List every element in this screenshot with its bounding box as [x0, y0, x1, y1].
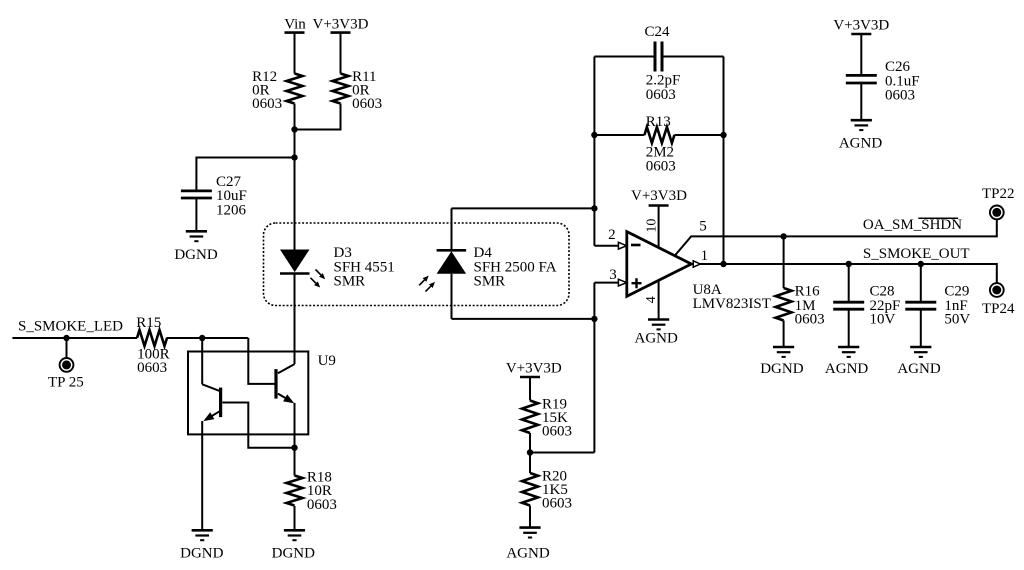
svg-text:TP24: TP24 — [982, 301, 1015, 317]
svg-text:S_SMOKE_OUT: S_SMOKE_OUT — [863, 246, 970, 262]
svg-text:LMV823IST: LMV823IST — [693, 296, 771, 312]
svg-text:DGND: DGND — [174, 247, 217, 263]
svg-text:R13: R13 — [646, 114, 671, 130]
svg-text:1206: 1206 — [216, 203, 247, 219]
svg-text:DGND: DGND — [760, 361, 803, 377]
svg-text:R15: R15 — [136, 315, 161, 331]
svg-text:AGND: AGND — [506, 546, 549, 562]
svg-text:3: 3 — [609, 267, 617, 283]
svg-text:0603: 0603 — [307, 497, 337, 513]
svg-text:0603: 0603 — [646, 87, 676, 103]
svg-text:4: 4 — [644, 296, 659, 303]
svg-text:S_SMOKE_LED: S_SMOKE_LED — [18, 319, 123, 335]
svg-text:V+3V3D: V+3V3D — [506, 361, 562, 377]
svg-text:0603: 0603 — [252, 96, 282, 112]
svg-text:TP22: TP22 — [982, 186, 1015, 202]
svg-text:0603: 0603 — [795, 312, 825, 328]
svg-text:TP 25: TP 25 — [48, 375, 84, 391]
svg-text:AGND: AGND — [897, 361, 940, 377]
svg-text:V+3V3D: V+3V3D — [313, 16, 369, 32]
svg-text:10V: 10V — [870, 312, 896, 328]
svg-text:DGND: DGND — [272, 546, 315, 562]
svg-text:AGND: AGND — [825, 361, 868, 377]
svg-text:0603: 0603 — [542, 496, 572, 512]
svg-text:AGND: AGND — [839, 136, 882, 152]
svg-text:V+3V3D: V+3V3D — [833, 18, 889, 34]
svg-text:OA_SM_SHDN: OA_SM_SHDN — [863, 217, 962, 233]
svg-text:SMR: SMR — [334, 274, 366, 290]
svg-text:5: 5 — [699, 219, 707, 235]
svg-text:0603: 0603 — [646, 159, 676, 175]
svg-text:V+3V3D: V+3V3D — [631, 188, 687, 204]
svg-text:2: 2 — [608, 227, 616, 243]
svg-text:1: 1 — [701, 248, 709, 264]
svg-text:AGND: AGND — [635, 331, 678, 347]
svg-text:0603: 0603 — [137, 360, 167, 376]
svg-text:0603: 0603 — [542, 424, 572, 440]
svg-text:DGND: DGND — [180, 546, 223, 562]
svg-text:0603: 0603 — [885, 88, 915, 104]
svg-text:Vin: Vin — [284, 16, 306, 32]
svg-text:50V: 50V — [944, 312, 970, 328]
svg-text:0603: 0603 — [352, 96, 382, 112]
svg-text:C24: C24 — [644, 24, 670, 40]
svg-text:SMR: SMR — [474, 274, 506, 290]
svg-text:U9: U9 — [318, 353, 336, 369]
svg-text:10: 10 — [645, 219, 660, 233]
